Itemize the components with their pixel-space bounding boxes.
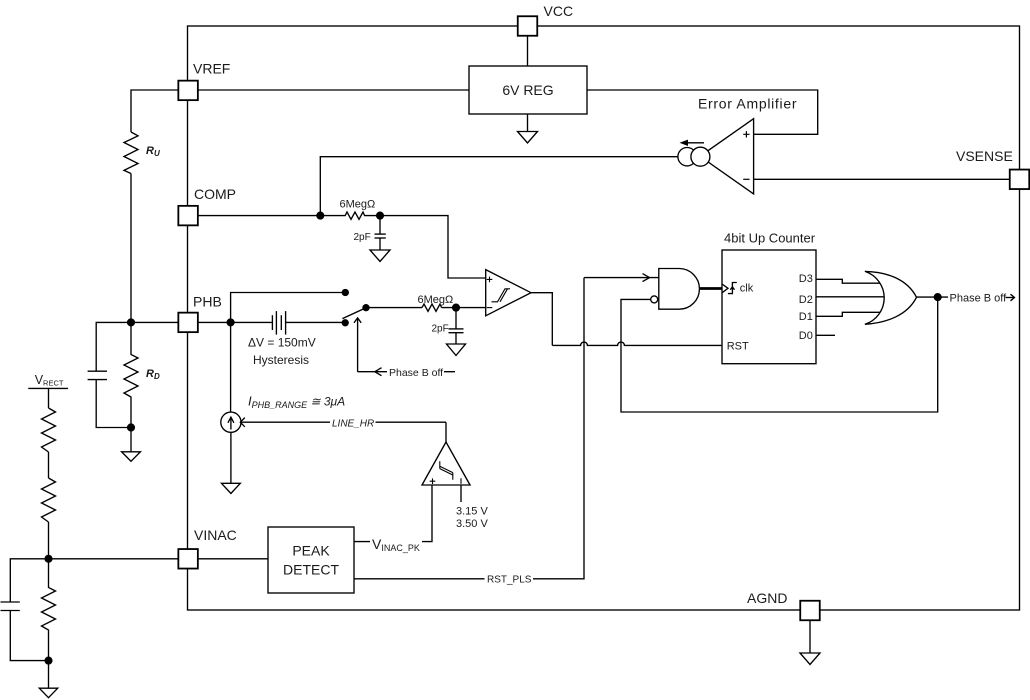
pad VCC bbox=[518, 16, 538, 36]
wire D0 stub bbox=[816, 334, 835, 336]
comparator U3 line detect bbox=[422, 442, 470, 485]
svg-text:RST: RST bbox=[727, 341, 749, 353]
wire feedback phase b off to NAND bbox=[621, 297, 938, 412]
node VINAC divider bbox=[45, 555, 52, 562]
wire VCC to 6V REG bbox=[527, 36, 529, 66]
node upper throw bbox=[342, 290, 348, 296]
pad VINAC bbox=[178, 549, 198, 569]
wire error amp output to COMP node bbox=[320, 157, 678, 216]
wire R1 to R2 bbox=[48, 452, 50, 478]
ground below current source bbox=[222, 483, 241, 493]
ground below AGND bbox=[800, 653, 820, 665]
capacitor parallel RD plates bbox=[88, 370, 107, 372]
wire error amp minus to VSENSE bbox=[754, 178, 1010, 180]
resistor RD bbox=[124, 322, 138, 427]
wire pole to 6Meg PHB bbox=[366, 307, 422, 309]
U1 minus mark bbox=[743, 178, 749, 180]
svg-text:VCC: VCC bbox=[544, 3, 574, 19]
svg-text:VINAC: VINAC bbox=[194, 527, 237, 543]
svg-text:clk: clk bbox=[740, 283, 754, 295]
wire NAND top input bbox=[584, 277, 659, 279]
svg-text:RST_PLS: RST_PLS bbox=[487, 575, 532, 586]
svg-text:6MegΩ: 6MegΩ bbox=[418, 294, 454, 306]
capacitor ext bottom wire bbox=[10, 611, 48, 661]
wire U3 out to LINE_HR bbox=[445, 422, 447, 442]
wire phase b off control bbox=[358, 371, 456, 373]
label RST_PLS bbox=[485, 573, 534, 586]
svg-text:VRECT: VRECT bbox=[35, 373, 64, 388]
capacitor parallel RD bottom wire bbox=[96, 380, 131, 428]
wire RU to PHB node bbox=[130, 174, 132, 323]
arrow NAND top input bbox=[643, 274, 650, 282]
wire to comparator minus bbox=[442, 307, 486, 309]
wire AGND to ground bbox=[809, 620, 811, 653]
wire D1 bbox=[816, 312, 880, 316]
clk edge symbol bbox=[728, 283, 737, 294]
arrow above current source bbox=[683, 142, 704, 144]
node after 6Meg PHB bbox=[453, 304, 460, 311]
svg-text:6V REG: 6V REG bbox=[502, 82, 553, 98]
block PEAK DETECT bbox=[268, 527, 354, 593]
gate U4 NAND bbox=[659, 269, 700, 310]
block 6V REG bbox=[469, 66, 587, 114]
wire VRECT down bbox=[48, 388, 50, 408]
node PHB divider junction bbox=[128, 319, 135, 326]
wire RD node to ground bbox=[130, 428, 132, 452]
svg-text:Phase B off: Phase B off bbox=[950, 293, 1008, 305]
svg-text:D2: D2 bbox=[799, 294, 813, 306]
svg-text:3.50 V: 3.50 V bbox=[456, 518, 488, 530]
svg-text:PHB: PHB bbox=[193, 294, 222, 310]
capacitor ext top wire bbox=[10, 559, 48, 602]
label Phase B off control bbox=[387, 366, 444, 379]
wire NAND out to clk bold bbox=[700, 287, 723, 290]
wire R3 to ground bbox=[48, 661, 50, 688]
capacitor parallel RD top wire bbox=[96, 322, 131, 371]
wire 6V REG out to error amp plus input bbox=[587, 90, 818, 134]
wire VREF to 6V REG bbox=[198, 89, 469, 91]
wire U3 plus to peak detect bbox=[354, 485, 432, 542]
svg-text:2pF: 2pF bbox=[432, 324, 449, 335]
ground below RD bbox=[122, 452, 141, 462]
wire PHB node down to current source bbox=[230, 322, 232, 412]
capacitor 2pF COMP lead bbox=[379, 216, 381, 235]
wire D2 bbox=[816, 296, 884, 298]
external divider VRECT bar bbox=[28, 387, 68, 389]
label V_INAC_PK bbox=[370, 533, 422, 553]
wire current source to ground bbox=[230, 432, 232, 483]
gate U5 OR bbox=[865, 271, 917, 324]
svg-text:ΔV = 150mV: ΔV = 150mV bbox=[248, 336, 316, 350]
node lower throw bbox=[342, 320, 348, 326]
label LINE_HR bbox=[330, 416, 376, 430]
resistor ext R3 bbox=[42, 559, 56, 661]
svg-text:RU: RU bbox=[146, 145, 160, 158]
svg-text:IPHB_RANGE ≅ 3μA: IPHB_RANGE ≅ 3μA bbox=[248, 394, 345, 411]
svg-text:4bit Up Counter: 4bit Up Counter bbox=[724, 231, 816, 246]
bubble NAND lower input bbox=[651, 296, 658, 303]
switch blade SW1 bbox=[342, 308, 366, 319]
wire RST line with hops bbox=[552, 342, 722, 345]
capacitor 2pF PHB plates bbox=[449, 328, 464, 330]
svg-text:VSENSE: VSENSE bbox=[956, 148, 1013, 164]
capacitor 2pF PHB lead bbox=[455, 308, 457, 329]
resistor 6Meg COMP bbox=[320, 212, 380, 219]
svg-text:VREF: VREF bbox=[193, 61, 230, 77]
svg-text:RD: RD bbox=[146, 368, 160, 381]
schmitt symbol U2 bbox=[492, 289, 511, 302]
arrow phase b off out bbox=[1006, 297, 1015, 299]
wire R2 to VINAC node bbox=[48, 522, 50, 559]
comparator U2 schmitt PHB bbox=[486, 270, 531, 316]
pad COMP bbox=[178, 206, 198, 226]
svg-text:2pF: 2pF bbox=[354, 232, 371, 243]
svg-text:D3: D3 bbox=[799, 273, 813, 285]
wire RST_PLS bbox=[354, 278, 584, 579]
wire VREF left to RU bbox=[131, 90, 178, 132]
svg-text:Error Amplifier: Error Amplifier bbox=[698, 96, 797, 112]
wire upper switch throw bbox=[231, 293, 346, 323]
svg-text:Hysteresis: Hysteresis bbox=[253, 353, 309, 367]
ground below 6V REG bbox=[518, 132, 538, 144]
svg-text:AGND: AGND bbox=[747, 590, 787, 606]
resistor ext R1 bbox=[42, 408, 56, 452]
resistor ext R2 bbox=[42, 478, 56, 522]
current source circles on error amp output bbox=[678, 148, 696, 166]
pad VREF bbox=[178, 81, 198, 101]
capacitor ext plates bbox=[1, 601, 20, 603]
wire 2pF PHB ground lead bbox=[455, 333, 457, 344]
wire 6V REG to ground bbox=[527, 114, 529, 132]
ground below 2pF PHB bbox=[447, 344, 466, 356]
wire U3 minus stub bbox=[460, 485, 462, 502]
wire D3 bbox=[816, 279, 880, 283]
U2 minus mark bbox=[487, 307, 493, 309]
wire battery to lower throw bbox=[286, 321, 345, 323]
wire node to VINAC pad bbox=[49, 558, 179, 560]
wire comparator out to RST line bbox=[531, 293, 552, 346]
wire 6Meg to comparator plus bbox=[380, 216, 486, 278]
node below RD bbox=[128, 424, 135, 431]
pad AGND bbox=[800, 601, 820, 621]
wire OR out bbox=[917, 296, 948, 298]
svg-text:D0: D0 bbox=[799, 330, 813, 342]
wire VINAC to peak detect bbox=[198, 558, 268, 560]
pad VSENSE bbox=[1010, 170, 1030, 190]
pad PHB bbox=[178, 313, 198, 333]
resistor RU bbox=[124, 132, 138, 174]
ground ext bbox=[39, 688, 57, 698]
resistor 6Meg PHB bbox=[422, 304, 442, 311]
op-amp U1 error amplifier bbox=[700, 119, 754, 194]
svg-text:DETECT: DETECT bbox=[283, 562, 339, 578]
current source I PHB bbox=[221, 412, 241, 432]
svg-text:6MegΩ: 6MegΩ bbox=[340, 199, 376, 211]
node after 6Meg COMP bbox=[377, 212, 384, 219]
node COMP junction bbox=[317, 212, 324, 219]
svg-text:PEAK: PEAK bbox=[292, 543, 330, 559]
svg-text:COMP: COMP bbox=[194, 186, 236, 202]
U3 minus mark bbox=[460, 478, 462, 484]
block 4bit up counter bbox=[722, 250, 816, 364]
wire PHB pad to node bbox=[198, 321, 231, 323]
wire LINE_HR bbox=[241, 421, 447, 423]
node below R3 bbox=[45, 657, 52, 664]
svg-text:D1: D1 bbox=[799, 311, 813, 323]
U3 plus mark bbox=[430, 478, 436, 484]
capacitor 2pF COMP plates bbox=[375, 233, 386, 235]
node PHB bbox=[227, 319, 234, 326]
IC boundary rectangle bbox=[188, 26, 1020, 610]
node switch pole bbox=[363, 305, 369, 311]
wire COMP pad to node bbox=[198, 215, 320, 217]
svg-text:LINE_HR: LINE_HR bbox=[332, 419, 374, 430]
U1 plus mark bbox=[743, 131, 749, 137]
U2 plus mark bbox=[487, 277, 493, 283]
battery dV hysteresis bbox=[271, 315, 273, 330]
ground below 2pF COMP bbox=[370, 250, 390, 262]
wire node to PHB pad bbox=[131, 321, 178, 323]
schmitt symbol U3 bbox=[440, 461, 453, 480]
svg-text:Phase B off: Phase B off bbox=[389, 367, 443, 379]
node phase b off bbox=[934, 294, 941, 301]
switch control arrow bbox=[357, 318, 359, 371]
arrow clk bbox=[722, 284, 728, 293]
svg-text:3.15 V: 3.15 V bbox=[456, 506, 488, 518]
wire PHB node to battery bbox=[231, 321, 273, 323]
wire 2pF to ground bbox=[379, 238, 381, 250]
